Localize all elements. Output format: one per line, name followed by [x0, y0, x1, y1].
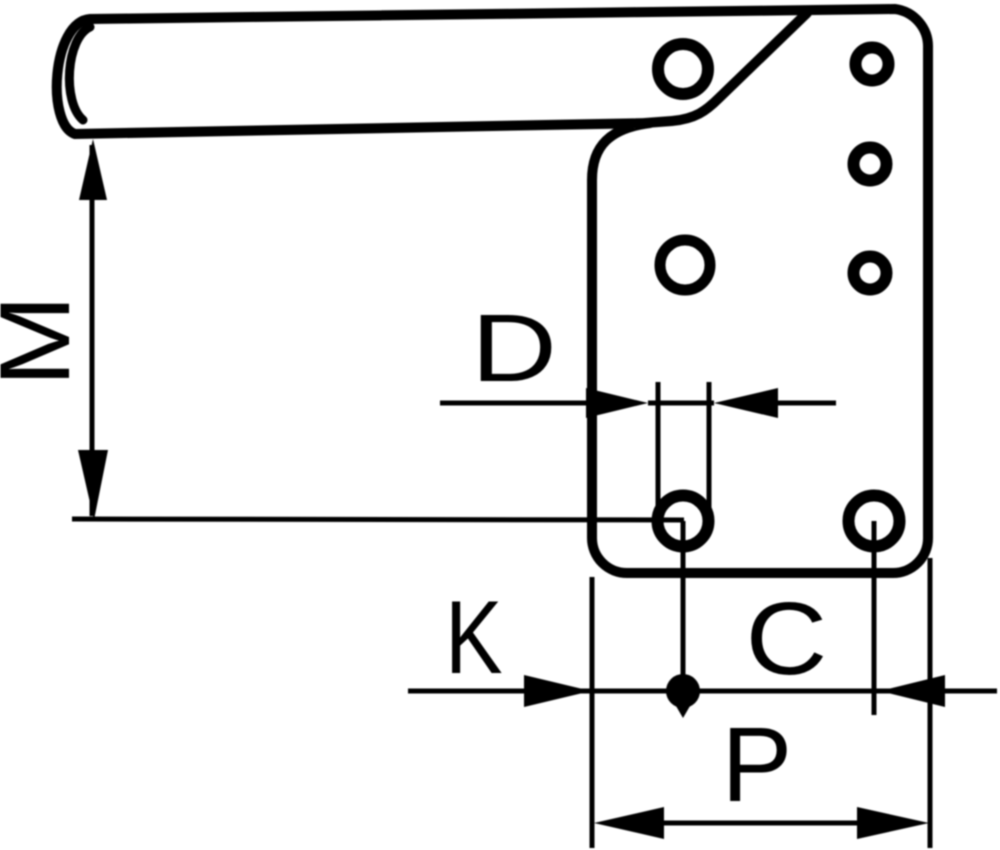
dimension P shaft: [660, 821, 860, 826]
reference line from M to bottom-left hole center: [72, 519, 684, 520]
handle end cap inner line: [69, 27, 90, 120]
plate corner diagonal edge: [645, 13, 807, 123]
dimension K right-pointing arrowhead: [524, 675, 591, 707]
dimension M vertical line: [90, 145, 95, 516]
dot marker at bottom-left hole axis: [666, 674, 700, 708]
dimension C left-pointing arrowhead: [880, 675, 945, 707]
dimension M bottom arrowhead: [78, 450, 108, 520]
dimension D line between extension lines: [648, 401, 714, 406]
extension line below bottom-right hole: [872, 521, 877, 715]
extension line D right: [707, 382, 712, 513]
dimension D right-pointing arrowhead: [586, 388, 648, 418]
dimension P left arrowhead: [594, 807, 664, 839]
dimension K/C horizontal line: [408, 689, 997, 694]
bottom hole left: [658, 496, 709, 547]
svg-text:C: C: [746, 581, 828, 696]
small hole lower right: [854, 257, 887, 290]
small hole top right: [856, 48, 889, 81]
extension line D left: [656, 382, 661, 513]
dimension P right arrowhead: [857, 807, 929, 839]
dimension D left shaft: [440, 401, 592, 406]
extension line P left: [590, 577, 595, 848]
dot marker tail: [676, 706, 690, 718]
small hole middle right: [854, 148, 887, 181]
svg-text:M: M: [0, 295, 91, 387]
svg-text:D: D: [471, 294, 557, 401]
extension line P right: [928, 558, 933, 848]
svg-text:P: P: [722, 706, 793, 824]
pivot hole: [658, 44, 708, 94]
dimension D right shaft: [778, 401, 836, 406]
bottom hole right: [849, 496, 900, 547]
svg-text:K: K: [445, 579, 503, 695]
extension line below bottom-left hole: [681, 521, 686, 676]
middle hole: [660, 240, 710, 290]
dimension D left-pointing arrowhead: [714, 388, 778, 418]
clamp body plate and handle outline: [57, 9, 928, 573]
dimension M top arrowhead: [79, 139, 107, 200]
